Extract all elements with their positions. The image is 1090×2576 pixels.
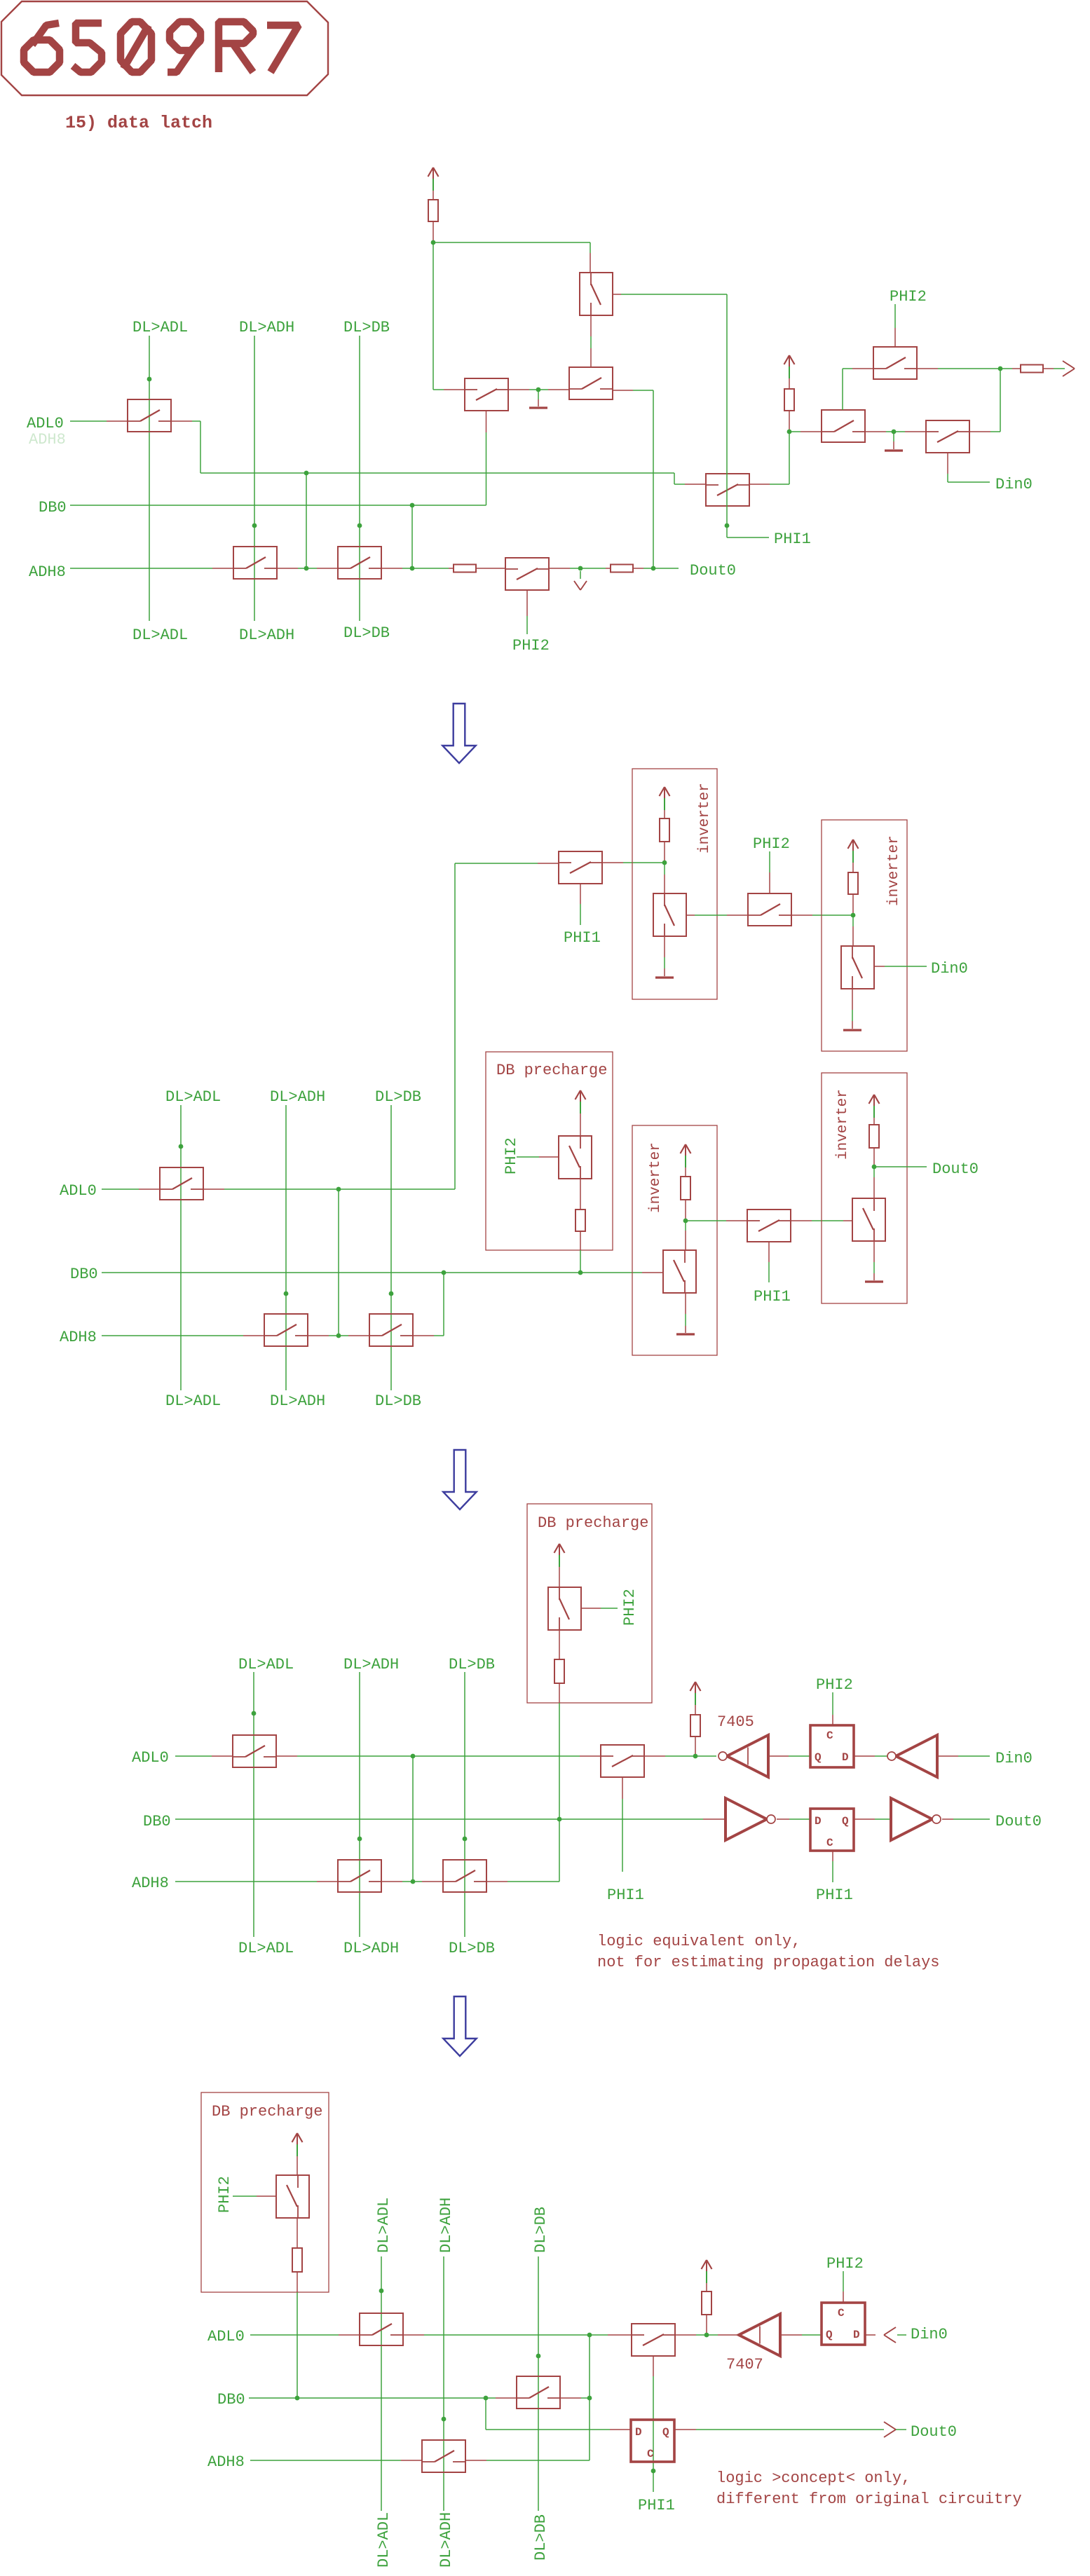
svg-text:Din0: Din0 bbox=[995, 1750, 1033, 1767]
svg-text:DL>DB: DL>DB bbox=[449, 1656, 495, 1673]
svg-text:inverter: inverter bbox=[886, 835, 902, 906]
svg-text:Q: Q bbox=[815, 1751, 822, 1764]
svg-text:PHI2: PHI2 bbox=[503, 1137, 520, 1174]
svg-text:DL>DB: DL>DB bbox=[343, 319, 390, 336]
svg-text:C: C bbox=[826, 1837, 833, 1849]
svg-text:Dout0: Dout0 bbox=[995, 1813, 1042, 1830]
svg-text:PHI2: PHI2 bbox=[890, 288, 927, 306]
svg-text:PHI2: PHI2 bbox=[816, 1676, 853, 1694]
svg-text:DL>DB: DL>DB bbox=[532, 2207, 550, 2253]
svg-text:Dout0: Dout0 bbox=[690, 562, 736, 580]
svg-text:logic >concept< only,: logic >concept< only, bbox=[716, 2469, 911, 2487]
svg-text:15) data latch: 15) data latch bbox=[65, 113, 212, 133]
svg-text:not for estimating propagation: not for estimating propagation delays bbox=[597, 1954, 939, 1971]
svg-text:PHI2: PHI2 bbox=[753, 835, 790, 853]
svg-text:D: D bbox=[815, 1815, 822, 1828]
svg-text:DL>ADL: DL>ADL bbox=[238, 1656, 294, 1673]
svg-text:DL>ADL: DL>ADL bbox=[375, 2198, 393, 2253]
svg-text:PHI2: PHI2 bbox=[621, 1589, 639, 1626]
svg-text:DL>DB: DL>DB bbox=[532, 2514, 550, 2561]
svg-text:DL>DB: DL>DB bbox=[375, 1392, 421, 1410]
svg-text:Q: Q bbox=[826, 2329, 833, 2341]
svg-text:PHI2: PHI2 bbox=[216, 2176, 233, 2213]
svg-text:C: C bbox=[838, 2307, 845, 2320]
svg-text:DL>ADL: DL>ADL bbox=[375, 2512, 393, 2568]
svg-text:DL>ADL: DL>ADL bbox=[165, 1088, 221, 1106]
svg-text:PHI2: PHI2 bbox=[512, 637, 550, 655]
svg-text:ADH8: ADH8 bbox=[29, 431, 66, 448]
svg-text:inverter: inverter bbox=[697, 783, 713, 854]
svg-text:DL>ADH: DL>ADH bbox=[437, 2198, 455, 2253]
svg-text:ADH8: ADH8 bbox=[132, 1875, 169, 1892]
svg-text:PHI1: PHI1 bbox=[607, 1886, 644, 1904]
svg-text:D: D bbox=[853, 2329, 860, 2341]
svg-text:DL>ADH: DL>ADH bbox=[239, 626, 294, 644]
svg-text:PHI1: PHI1 bbox=[754, 1288, 791, 1306]
svg-text:DB0: DB0 bbox=[70, 1266, 98, 1283]
svg-text:DL>ADL: DL>ADL bbox=[132, 319, 188, 336]
svg-text:PHI1: PHI1 bbox=[564, 929, 601, 947]
svg-text:D: D bbox=[635, 2426, 642, 2439]
svg-text:Q: Q bbox=[662, 2426, 669, 2439]
svg-text:different from original circui: different from original circuitry bbox=[716, 2491, 1022, 2508]
svg-text:DL>ADH: DL>ADH bbox=[437, 2512, 455, 2568]
svg-text:inverter: inverter bbox=[648, 1142, 664, 1213]
svg-text:D: D bbox=[842, 1751, 849, 1764]
svg-text:DL>ADH: DL>ADH bbox=[343, 1656, 399, 1673]
svg-text:logic equivalent only,: logic equivalent only, bbox=[597, 1933, 801, 1950]
svg-text:Q: Q bbox=[842, 1815, 849, 1828]
svg-text:DB precharge: DB precharge bbox=[496, 1062, 607, 1079]
svg-text:ADH8: ADH8 bbox=[207, 2453, 245, 2471]
svg-text:DB precharge: DB precharge bbox=[212, 2103, 322, 2121]
svg-text:7405: 7405 bbox=[717, 1713, 754, 1731]
svg-text:Dout0: Dout0 bbox=[932, 1160, 979, 1178]
svg-text:PHI1: PHI1 bbox=[816, 1886, 853, 1904]
svg-text:PHI2: PHI2 bbox=[826, 2255, 864, 2273]
svg-text:Din0: Din0 bbox=[911, 2326, 948, 2343]
svg-text:Din0: Din0 bbox=[995, 476, 1033, 493]
svg-text:C: C bbox=[826, 1729, 833, 1742]
svg-text:ADH8: ADH8 bbox=[60, 1329, 97, 1346]
svg-text:DB precharge: DB precharge bbox=[538, 1514, 648, 1532]
svg-text:DB0: DB0 bbox=[39, 499, 67, 516]
svg-text:DL>ADL: DL>ADL bbox=[132, 626, 188, 644]
svg-text:7407: 7407 bbox=[726, 2356, 763, 2373]
svg-text:Dout0: Dout0 bbox=[911, 2423, 957, 2441]
svg-text:DL>ADL: DL>ADL bbox=[165, 1392, 221, 1410]
svg-text:PHI1: PHI1 bbox=[638, 2497, 675, 2514]
svg-text:Din0: Din0 bbox=[931, 960, 968, 978]
svg-text:DL>DB: DL>DB bbox=[449, 1940, 495, 1957]
svg-text:DB0: DB0 bbox=[217, 2391, 245, 2409]
svg-text:ADH8: ADH8 bbox=[29, 563, 66, 581]
svg-text:DL>ADH: DL>ADH bbox=[239, 319, 294, 336]
svg-text:DL>ADH: DL>ADH bbox=[343, 1940, 399, 1957]
svg-text:DL>DB: DL>DB bbox=[375, 1088, 421, 1106]
svg-text:ADL0: ADL0 bbox=[27, 415, 64, 432]
svg-text:ADL0: ADL0 bbox=[60, 1182, 97, 1200]
svg-text:ADL0: ADL0 bbox=[207, 2328, 245, 2345]
svg-text:C: C bbox=[647, 2448, 654, 2460]
svg-text:ADL0: ADL0 bbox=[132, 1749, 169, 1767]
svg-text:DL>ADH: DL>ADH bbox=[270, 1088, 325, 1106]
svg-text:DL>ADH: DL>ADH bbox=[270, 1392, 325, 1410]
svg-text:inverter: inverter bbox=[835, 1089, 851, 1160]
svg-text:DL>DB: DL>DB bbox=[343, 624, 390, 642]
svg-text:DL>ADL: DL>ADL bbox=[238, 1940, 294, 1957]
svg-text:DB0: DB0 bbox=[143, 1813, 171, 1830]
svg-text:PHI1: PHI1 bbox=[774, 530, 811, 548]
